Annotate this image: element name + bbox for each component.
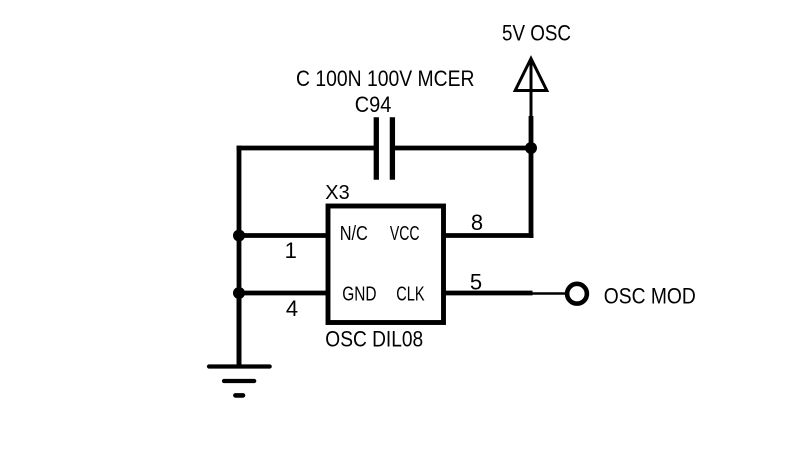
svg-text:C 100N 100V MCER: C 100N 100V MCER — [296, 66, 475, 91]
svg-text:CLK: CLK — [396, 284, 425, 306]
svg-text:X3: X3 — [325, 182, 349, 204]
pin label CLK — [396, 284, 425, 306]
label X3 — [325, 182, 349, 204]
wire: pin 8 horizontal (box to 5V vertical) — [443, 233, 533, 238]
IC X3 box (OSC DIL08) — [328, 206, 444, 323]
svg-text:4: 4 — [286, 296, 298, 321]
pin number 4 — [286, 296, 298, 321]
wire: pin 5 thin lead to terminal — [533, 292, 566, 295]
svg-text:GND: GND — [342, 284, 376, 306]
svg-text:1: 1 — [285, 238, 297, 263]
junction dot pin 4 — [233, 287, 245, 299]
pin label GND — [342, 284, 376, 306]
svg-text:8: 8 — [471, 210, 483, 235]
label OSC DIL08 — [325, 326, 423, 351]
wire: left vertical bus — [237, 146, 242, 367]
wire: top horizontal left segment (left vertical to capacitor left plate) — [237, 146, 374, 151]
junction dot pin 1 — [233, 230, 245, 242]
svg-text:C94: C94 — [355, 92, 392, 117]
svg-text:OSC MOD: OSC MOD — [604, 284, 696, 309]
wire: pin 1 (left bus to box) — [239, 233, 328, 238]
ground — [209, 293, 270, 395]
capacitor C94 — [376, 117, 392, 180]
terminal OSC MOD (open circle) — [567, 284, 587, 304]
label C94 — [355, 92, 392, 117]
pin number 8 — [471, 210, 483, 235]
wire: pin 4 (left bus to box) — [239, 291, 328, 296]
svg-text:VCC: VCC — [390, 223, 420, 245]
pin number 5 — [470, 270, 482, 295]
label C 100N 100V MCER — [296, 66, 475, 91]
net label OSC MOD — [604, 284, 696, 309]
wire: pin 5 thick segment (box to stub) — [443, 291, 533, 296]
svg-text:OSC DIL08: OSC DIL08 — [325, 326, 423, 351]
power symbol 5V OSC — [515, 59, 547, 118]
pin number 1 — [285, 238, 297, 263]
svg-text:N/C: N/C — [340, 223, 368, 245]
svg-text:5V OSC: 5V OSC — [502, 21, 571, 46]
wire: 5V vertical down to pin 8 corner — [529, 116, 534, 238]
junction dot at 5V rail — [525, 142, 537, 154]
pin label N/C — [340, 223, 368, 245]
wire: top horizontal right segment (capacitor right plate to 5V junction) — [395, 146, 531, 151]
pin label VCC — [390, 223, 420, 245]
net label 5V OSC — [502, 21, 571, 46]
